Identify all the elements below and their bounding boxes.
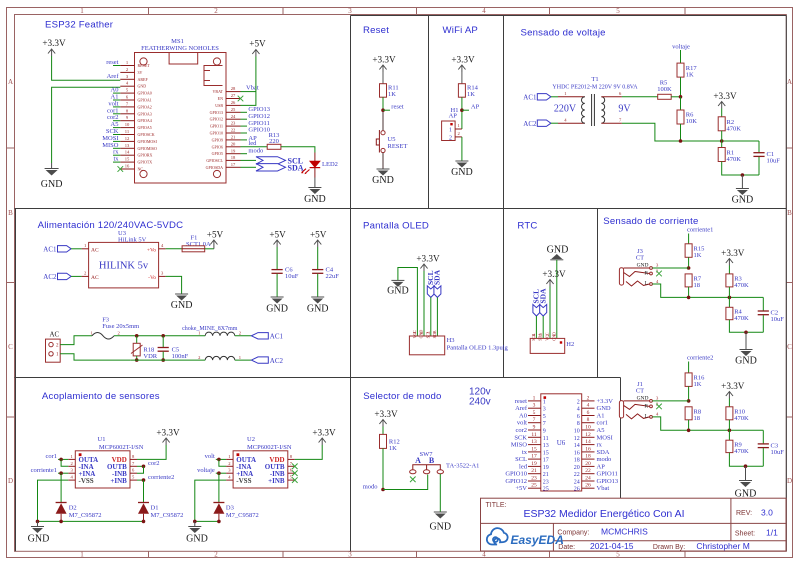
svg-text:GND: GND bbox=[372, 175, 394, 186]
capacitor C6 10uF bbox=[272, 247, 299, 297]
MS1 internal pin names right bbox=[206, 89, 224, 170]
svg-text:H2: H2 bbox=[566, 341, 574, 348]
right GPIO net wires bbox=[241, 112, 248, 153]
junction node (corriente1) bbox=[59, 471, 63, 475]
diode D1 M7_C95872 bbox=[138, 503, 183, 522]
svg-text:18: 18 bbox=[231, 155, 236, 160]
svg-text:Aref: Aref bbox=[515, 405, 528, 412]
svg-text:2021-04-15: 2021-04-15 bbox=[590, 541, 634, 551]
wire U2 VDD to +3.3V bbox=[295, 445, 322, 459]
svg-text:1K: 1K bbox=[389, 445, 397, 452]
junction node (below R7) bbox=[687, 296, 691, 300]
no-connect X on U2 pin6 bbox=[292, 470, 298, 476]
no-connect X on SW7 pin A bbox=[410, 477, 416, 483]
header H3 Pantalla OLED 1.3pulg bbox=[409, 330, 508, 355]
svg-text:GPIO12: GPIO12 bbox=[505, 478, 527, 485]
svg-text:NC: NC bbox=[138, 167, 144, 172]
svg-text:2: 2 bbox=[587, 395, 590, 401]
svg-text:21: 21 bbox=[543, 472, 549, 478]
svg-text:23: 23 bbox=[231, 121, 236, 126]
svg-text:SCL: SCL bbox=[531, 333, 536, 341]
connector AC (mains input) bbox=[46, 331, 61, 363]
wire GND to H2 pin1 bbox=[556, 260, 558, 339]
svg-text:GPIO9: GPIO9 bbox=[212, 137, 223, 142]
svg-text:GPIOMISO: GPIOMISO bbox=[138, 146, 157, 151]
svg-text:2: 2 bbox=[214, 7, 218, 15]
svg-text:YHDC PE2012-M 220V 9V 0.8VA: YHDC PE2012-M 220V 9V 0.8VA bbox=[552, 85, 638, 91]
capacitor C1 10uF bbox=[753, 141, 780, 175]
wire T1 pin7 to rail bbox=[622, 123, 759, 141]
switch SW7 TA-3522-A1 bbox=[410, 451, 480, 474]
svg-text:470K: 470K bbox=[734, 415, 749, 422]
svg-text:+5V: +5V bbox=[207, 230, 224, 240]
no-connect X on pin 16 bbox=[118, 166, 124, 172]
net label modo bbox=[363, 483, 378, 490]
svg-text:FEATHERWING NOHOLES: FEATHERWING NOHOLES bbox=[141, 45, 219, 52]
wire H1 pin2 to GND bbox=[461, 137, 463, 161]
svg-text:240v: 240v bbox=[469, 397, 491, 408]
svg-text:led: led bbox=[519, 463, 528, 470]
svg-text:A0: A0 bbox=[519, 413, 527, 420]
svg-text:26: 26 bbox=[585, 483, 591, 489]
svg-text:MCP6002T-I/SN: MCP6002T-I/SN bbox=[247, 444, 292, 451]
GND rail U1 bbox=[38, 520, 144, 522]
svg-text:10uF: 10uF bbox=[285, 273, 299, 280]
svg-text:12: 12 bbox=[585, 432, 591, 438]
svg-text:GND: GND bbox=[597, 405, 611, 412]
resistor R2 470K bbox=[718, 109, 741, 133]
wire T1 pin6 to R5 bbox=[622, 96, 658, 98]
svg-text:GPIO13: GPIO13 bbox=[597, 478, 619, 485]
svg-text:Pantalla OLED 1.3pulg: Pantalla OLED 1.3pulg bbox=[447, 345, 509, 352]
fuse F3 20x5mm bbox=[91, 317, 140, 340]
junction node (R15/R7/jack) bbox=[687, 266, 691, 270]
svg-text:MOSI: MOSI bbox=[597, 434, 613, 441]
svg-text:22: 22 bbox=[585, 468, 591, 474]
svg-text:5: 5 bbox=[616, 7, 620, 15]
svg-text:-VSS: -VSS bbox=[79, 477, 94, 485]
resistor R8 18 bbox=[685, 407, 701, 422]
svg-text:D3: D3 bbox=[226, 505, 234, 512]
wire J1 pin3 to node bbox=[652, 400, 688, 402]
svg-text:+3.3V: +3.3V bbox=[374, 409, 398, 419]
svg-text:SCL: SCL bbox=[425, 331, 430, 339]
LED LED2 bbox=[301, 153, 338, 178]
U6 left pins bbox=[528, 401, 541, 488]
svg-text:Reset: Reset bbox=[363, 25, 389, 36]
svg-text:AC: AC bbox=[91, 275, 99, 281]
EasyEDA logo bbox=[487, 528, 564, 547]
svg-text:16: 16 bbox=[585, 446, 591, 452]
junction node (rail D2) bbox=[59, 520, 63, 524]
wire R14 to node bbox=[461, 97, 463, 129]
wire R11 to node bbox=[382, 97, 384, 130]
feedback bridge U1 pins 6-7 bbox=[137, 466, 144, 473]
svg-text:Christopher M: Christopher M bbox=[696, 541, 749, 551]
bus pennant SDA bbox=[241, 164, 304, 173]
svg-text:A5: A5 bbox=[597, 427, 605, 434]
svg-text:12: 12 bbox=[574, 436, 580, 442]
svg-text:17: 17 bbox=[531, 454, 537, 460]
svg-text:AREF: AREF bbox=[138, 77, 149, 82]
power flag +3.3V (selector) bbox=[374, 409, 398, 427]
svg-text:U6: U6 bbox=[557, 439, 566, 447]
svg-text:AC1: AC1 bbox=[523, 94, 537, 102]
junction node (R18 top) bbox=[135, 334, 139, 338]
wire modo to SW7 bbox=[383, 475, 428, 490]
MS1 left pin numbers bbox=[125, 60, 130, 169]
wire R8 to rail bbox=[688, 420, 690, 431]
svg-text:2: 2 bbox=[214, 551, 218, 559]
svg-text:GPIOTX: GPIOTX bbox=[138, 160, 153, 165]
svg-text:19: 19 bbox=[531, 461, 537, 467]
svg-text:25: 25 bbox=[531, 483, 537, 489]
svg-text:AP: AP bbox=[449, 113, 458, 120]
resistor R15 1K bbox=[685, 244, 704, 259]
svg-text:SDA: SDA bbox=[432, 330, 437, 338]
svg-text:ESP32 Medidor Energético Con A: ESP32 Medidor Energético Con AI bbox=[523, 508, 684, 520]
svg-text:GND: GND bbox=[138, 84, 147, 89]
svg-text:A1: A1 bbox=[597, 413, 605, 420]
svg-text:13: 13 bbox=[125, 143, 130, 148]
svg-text:SDA: SDA bbox=[433, 269, 442, 285]
svg-text:GND: GND bbox=[732, 195, 754, 206]
svg-text:14: 14 bbox=[574, 443, 580, 449]
bottom wire R1/C1 bbox=[722, 162, 759, 176]
svg-text:R: R bbox=[644, 271, 648, 277]
svg-text:GPIOSCL: GPIOSCL bbox=[206, 158, 223, 163]
svg-text:+3.3V: +3.3V bbox=[721, 248, 745, 258]
svg-text:AC1: AC1 bbox=[43, 246, 57, 254]
svg-text:ESP32 Feather: ESP32 Feather bbox=[45, 20, 114, 31]
svg-text:modo: modo bbox=[597, 456, 612, 463]
svg-text:cor1: cor1 bbox=[597, 420, 609, 427]
svg-text:GPIO10: GPIO10 bbox=[505, 471, 527, 478]
svg-text:T1: T1 bbox=[591, 76, 598, 83]
svg-text:-Vo: -Vo bbox=[148, 275, 156, 281]
svg-text:VDR: VDR bbox=[143, 353, 157, 360]
svg-text:tx: tx bbox=[113, 156, 119, 163]
ground flag (C4) bbox=[307, 297, 329, 315]
svg-text:AP: AP bbox=[597, 463, 606, 470]
svg-text:CT: CT bbox=[636, 255, 644, 262]
junction node (rail D3) bbox=[217, 520, 221, 524]
svg-text:GND: GND bbox=[451, 167, 473, 178]
junction node (C5 top) bbox=[161, 334, 165, 338]
net label voltaje bbox=[672, 44, 690, 64]
svg-text:M7_C95872: M7_C95872 bbox=[151, 512, 184, 519]
header H1 AP bbox=[442, 107, 462, 142]
wire +3.3V to H3 pin3 bbox=[423, 271, 425, 336]
svg-text:4: 4 bbox=[482, 551, 486, 559]
junction node (GND corriente1) bbox=[744, 331, 748, 335]
ground flag (corriente1) bbox=[735, 332, 757, 366]
svg-text:M7_C95872: M7_C95872 bbox=[226, 512, 259, 519]
svg-text:GND: GND bbox=[547, 245, 569, 256]
bus pennant SDA (OLED) bbox=[433, 269, 442, 336]
svg-text:26: 26 bbox=[574, 487, 580, 493]
MS1 right pin numbers bbox=[231, 86, 236, 167]
svg-text:+5V: +5V bbox=[515, 485, 527, 492]
input port AC1 bbox=[523, 94, 558, 102]
left net stub wires bbox=[113, 66, 120, 163]
svg-text:28: 28 bbox=[231, 86, 236, 91]
svg-text:GPIO10: GPIO10 bbox=[210, 131, 223, 136]
resistor R17 1K bbox=[677, 63, 697, 78]
svg-text:9: 9 bbox=[543, 429, 546, 435]
svg-text:GPIOMOSI: GPIOMOSI bbox=[138, 139, 158, 144]
svg-text:+3.3V: +3.3V bbox=[372, 55, 396, 65]
junction node (R16/R8/jack) bbox=[687, 399, 691, 403]
svg-text:1: 1 bbox=[533, 395, 536, 401]
svg-text:7: 7 bbox=[543, 421, 546, 427]
wire R7 to rail bbox=[688, 287, 690, 298]
svg-text:MS1: MS1 bbox=[171, 38, 184, 45]
svg-text:14: 14 bbox=[125, 150, 130, 155]
svg-text:14: 14 bbox=[585, 439, 591, 445]
svg-text:3: 3 bbox=[348, 551, 352, 559]
junction node (rail R2/R1) bbox=[720, 139, 724, 143]
op-amp U2 MCP6002T-I/SN bbox=[226, 436, 295, 488]
pushbutton U5 RESET bbox=[376, 130, 407, 153]
net label volt bbox=[205, 453, 226, 460]
svg-text:+3.3V: +3.3V bbox=[713, 91, 737, 101]
resistor R4 470K bbox=[726, 297, 749, 322]
svg-text:10uF: 10uF bbox=[771, 316, 785, 323]
power flag +3.3V (AP) bbox=[451, 55, 475, 73]
section title RTC bbox=[517, 221, 537, 232]
svg-text:20: 20 bbox=[231, 141, 236, 146]
capacitor C2 10uF bbox=[758, 297, 785, 332]
svg-text:+3.3V: +3.3V bbox=[542, 269, 566, 279]
capacitor C5 100nF bbox=[158, 336, 189, 360]
svg-text:470K: 470K bbox=[727, 156, 742, 163]
svg-text:GPIOA3: GPIOA3 bbox=[138, 111, 152, 116]
svg-text:voltaje: voltaje bbox=[672, 44, 690, 51]
net label corriente1 bbox=[687, 227, 713, 244]
wire +5V to USB pin bbox=[241, 57, 256, 106]
junction node (rail below R6) bbox=[679, 139, 683, 143]
title block bbox=[481, 498, 787, 551]
svg-text:cor2: cor2 bbox=[148, 460, 160, 467]
svg-text:AC2: AC2 bbox=[270, 357, 284, 365]
svg-text:cor2: cor2 bbox=[515, 427, 527, 434]
section title Sensado de voltaje bbox=[521, 28, 606, 39]
wire R3 to rail bbox=[728, 287, 730, 298]
svg-text:GND: GND bbox=[387, 286, 409, 297]
junction node (cor1) bbox=[59, 458, 63, 462]
svg-text:GND: GND bbox=[186, 534, 208, 545]
svg-text:27: 27 bbox=[231, 93, 236, 98]
svg-text:3V: 3V bbox=[138, 70, 143, 75]
svg-text:5: 5 bbox=[533, 410, 536, 416]
svg-text:+3.3V: +3.3V bbox=[451, 55, 475, 65]
svg-text:SCL: SCL bbox=[515, 456, 527, 463]
resistor R11 1K bbox=[380, 72, 399, 98]
wire R17 to node bbox=[680, 77, 682, 97]
net label cor2 bbox=[137, 460, 160, 468]
svg-text:GPIORX: GPIORX bbox=[138, 153, 153, 158]
feedback bridge U1 pins 1-2 bbox=[61, 459, 68, 466]
svg-text:24: 24 bbox=[585, 476, 591, 482]
diode D2 M7_C95872 bbox=[56, 503, 102, 522]
net label 120v bbox=[469, 387, 491, 398]
svg-text:GPIO13: GPIO13 bbox=[210, 110, 223, 115]
bus pennant SCL (OLED) bbox=[426, 270, 435, 336]
svg-text:modo: modo bbox=[248, 147, 263, 154]
svg-text:M7_C95872: M7_C95872 bbox=[69, 512, 102, 519]
svg-text:RESET: RESET bbox=[388, 143, 408, 150]
wire R6 to rail bbox=[680, 124, 682, 141]
bus pennant SCL (RTC) bbox=[532, 289, 541, 338]
svg-text:D: D bbox=[8, 477, 13, 485]
svg-text:GND: GND bbox=[735, 356, 757, 367]
svg-text:13: 13 bbox=[543, 443, 549, 449]
audio jack J3 CT bbox=[619, 248, 659, 287]
net label 240v bbox=[469, 397, 491, 408]
svg-text:18: 18 bbox=[694, 282, 701, 289]
ground flag (HiLink -Vo) bbox=[171, 294, 193, 311]
junction node (R10/R9) bbox=[728, 429, 732, 433]
svg-text:GND: GND bbox=[171, 300, 193, 311]
svg-text:15: 15 bbox=[531, 446, 537, 452]
svg-text:GND: GND bbox=[28, 534, 50, 545]
svg-text:470K: 470K bbox=[734, 315, 749, 322]
ground flag (voltage divider) bbox=[732, 175, 754, 206]
U6 left net labels bbox=[505, 398, 527, 492]
svg-text:H3: H3 bbox=[447, 337, 455, 344]
audio jack J1 CT bbox=[619, 381, 659, 419]
wire AC pin1 to bottom row bbox=[60, 354, 131, 360]
svg-text:10: 10 bbox=[585, 425, 591, 431]
svg-text:10: 10 bbox=[574, 429, 580, 435]
svg-text:11: 11 bbox=[543, 436, 549, 442]
capacitor C3 10uF bbox=[758, 430, 785, 466]
svg-text:A: A bbox=[415, 456, 421, 465]
no-connect X on U2 pin5 bbox=[292, 477, 298, 483]
wire corriente2 to D1 bbox=[143, 480, 145, 502]
svg-text:100nF: 100nF bbox=[172, 353, 189, 360]
resistor R14 1K bbox=[458, 72, 478, 98]
svg-text:GND: GND bbox=[637, 396, 649, 402]
svg-text:GND: GND bbox=[307, 304, 329, 315]
svg-text:1: 1 bbox=[449, 128, 452, 134]
resistor R3 470K bbox=[726, 266, 749, 290]
no-connect X on J3 pin2 bbox=[656, 271, 662, 277]
svg-text:tx: tx bbox=[522, 449, 528, 456]
svg-text:GPIOA5: GPIOA5 bbox=[138, 125, 152, 130]
net label corriente2 bbox=[687, 355, 713, 373]
wire +3.3V to H2 pin2 bbox=[549, 287, 551, 339]
svg-text:LED2: LED2 bbox=[322, 161, 338, 168]
header H2 RTC bbox=[530, 332, 574, 353]
U6 left pin numbers bbox=[531, 395, 537, 488]
choke MINE_8X7mm bbox=[182, 326, 242, 360]
svg-text:reset: reset bbox=[515, 398, 527, 405]
svg-text:5: 5 bbox=[543, 414, 546, 420]
svg-text:25: 25 bbox=[543, 487, 549, 493]
svg-text:9V: 9V bbox=[618, 104, 631, 115]
svg-text:9: 9 bbox=[533, 425, 536, 431]
svg-text:MCMCHRIS: MCMCHRIS bbox=[601, 527, 648, 537]
junction node (GND voltage divider) bbox=[741, 173, 745, 177]
ground flag (RTC, inverted) bbox=[547, 245, 569, 260]
svg-text:cor1: cor1 bbox=[45, 453, 57, 460]
MS1 internal pin names left bbox=[138, 63, 158, 172]
svg-text:2: 2 bbox=[577, 399, 580, 405]
svg-text:CT: CT bbox=[636, 388, 644, 395]
power flag +5V (HiLink out) bbox=[205, 230, 224, 249]
svg-text:GND: GND bbox=[41, 179, 63, 190]
diode D3 M7_C95872 bbox=[213, 503, 258, 522]
svg-text:voltaje: voltaje bbox=[197, 467, 215, 474]
svg-text:+5V: +5V bbox=[249, 39, 266, 49]
svg-text:22: 22 bbox=[574, 472, 580, 478]
ground flag (U2) bbox=[186, 521, 208, 544]
svg-text:Vbat: Vbat bbox=[246, 85, 259, 92]
svg-text:C: C bbox=[8, 343, 13, 351]
svg-text:Drawn By:: Drawn By: bbox=[653, 544, 685, 551]
svg-text:A: A bbox=[8, 78, 13, 86]
svg-text:volt: volt bbox=[517, 420, 527, 427]
section title Alimentacion 120/240VAC-5VDC bbox=[38, 220, 184, 231]
svg-text:corriente2: corriente2 bbox=[687, 355, 713, 362]
wire R13 to LED2 bbox=[281, 147, 315, 153]
power flag +3.3V (corriente1) bbox=[721, 248, 745, 266]
svg-text:GPIO5: GPIO5 bbox=[212, 151, 223, 156]
svg-text:12: 12 bbox=[125, 136, 130, 141]
svg-text:U2: U2 bbox=[247, 436, 255, 443]
wire corriente1 to D2 bbox=[60, 473, 62, 502]
net label cor1 bbox=[45, 453, 68, 460]
bottom wire R9/C3 bbox=[729, 453, 763, 467]
net label voltaje (U2) bbox=[197, 467, 226, 474]
svg-text:4: 4 bbox=[577, 407, 580, 413]
svg-text:SDA: SDA bbox=[288, 164, 304, 173]
svg-text:1: 1 bbox=[80, 7, 84, 15]
junction node (R18 bottom) bbox=[135, 358, 139, 362]
svg-text:modo: modo bbox=[363, 483, 378, 490]
svg-text:GPIOA1: GPIOA1 bbox=[138, 98, 152, 103]
svg-text:16: 16 bbox=[125, 164, 130, 169]
svg-text:220: 220 bbox=[269, 138, 279, 145]
ground flag (selector) bbox=[429, 512, 451, 533]
svg-text:GND: GND bbox=[735, 489, 757, 500]
junction node (R3/R4) bbox=[728, 296, 732, 300]
resistor R7 18 bbox=[685, 274, 702, 289]
svg-text:D2: D2 bbox=[69, 505, 77, 512]
svg-text:20: 20 bbox=[574, 465, 580, 471]
svg-text:11: 11 bbox=[125, 129, 130, 134]
capacitor C4 22uF bbox=[312, 247, 339, 297]
svg-text:GPIOSCK: GPIOSCK bbox=[138, 132, 155, 137]
svg-text:GPIO11: GPIO11 bbox=[597, 471, 618, 478]
svg-text:D1: D1 bbox=[151, 505, 159, 512]
svg-text:10uF: 10uF bbox=[767, 158, 781, 165]
svg-text:6: 6 bbox=[587, 410, 590, 416]
svg-text:3.0: 3.0 bbox=[761, 508, 773, 518]
svg-text:+3.3V: +3.3V bbox=[721, 381, 745, 391]
section title Acoplamiento de sensores bbox=[42, 391, 160, 402]
power flag +5V (C6) bbox=[269, 230, 286, 248]
op-amp U1 MCP6002T-I/SN bbox=[68, 436, 143, 488]
svg-text:GND: GND bbox=[304, 194, 326, 205]
svg-text:volt: volt bbox=[205, 453, 215, 460]
wire SW7 pin B to GND bbox=[439, 474, 441, 512]
wire J3 pin3 to node bbox=[652, 267, 688, 269]
svg-text:470K: 470K bbox=[734, 282, 749, 289]
output port AC2 (filter) bbox=[235, 357, 284, 365]
